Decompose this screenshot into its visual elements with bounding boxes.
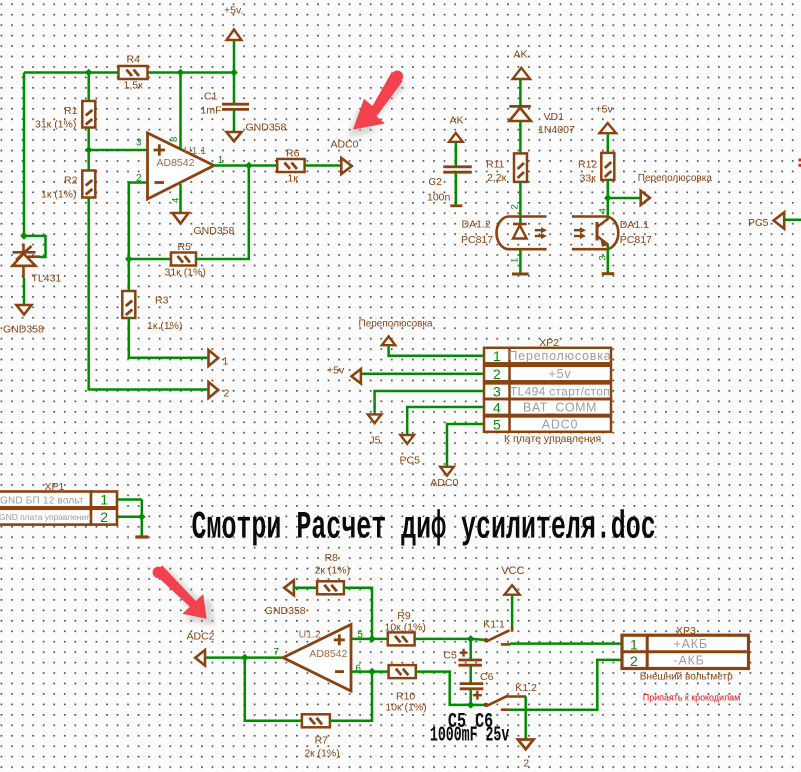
ground arrow (K1.2) [518,740,534,750]
label VD1 [544,111,565,123]
svg-text:+5v.: +5v. [224,5,243,17]
value 31k (1%) [35,119,76,131]
wire XP2 pin5 [447,424,484,467]
junction top rail / +5v C1 [230,69,238,77]
connector XP2 row 5 [484,416,611,432]
svg-text:10к (1%): 10к (1%) [385,701,426,713]
label R1 [64,105,78,117]
wire VD1 to R11 [519,121,522,153]
red specks right edge [799,159,801,167]
wire op-amp V- pin4 [179,184,182,213]
svg-text:1000mF 25v: 1000mF 25v [430,724,510,748]
pin number 3 [136,138,142,149]
value 1,5k [124,80,144,92]
wire rail to R1 [87,73,90,102]
value 10k (1%) R9 [385,622,426,634]
svg-text:DA1.2: DA1.2 [462,219,491,231]
power +5v arrow symbol [227,30,242,41]
net arrow ADC0 down [440,467,454,476]
resistor R2 [82,171,95,198]
wire ADC2 to output node [205,656,245,659]
net label 2 (bottom) [523,758,529,770]
node XP1 junction [138,513,146,521]
value 2,2k [487,172,507,184]
svg-text:GND плата управления: GND плата управления [0,512,91,522]
wire C1 top [233,73,236,104]
svg-text:1: 1 [223,356,229,368]
connector XP2 row 3 [484,383,611,399]
svg-text:3: 3 [598,255,609,260]
net arrow J5 down [368,414,382,423]
power VCC label [501,565,524,577]
wire C6 to node2 [469,689,472,705]
regulator TL431 [13,244,41,279]
wire VCC to K1.1 [511,596,514,629]
svg-text:2: 2 [523,758,529,770]
wire C1 bottom [233,109,236,132]
power +5v arrow (R12) [599,123,616,133]
svg-text:AK: AK [450,115,464,127]
value 10k (1%) R10 [385,701,426,713]
wire C5 to C6 [469,665,472,683]
svg-text:J5: J5 [369,435,380,447]
svg-text:10к (1%): 10к (1%) [385,622,426,634]
junction top rail / op-amp V+ [177,69,185,77]
svg-text:GND358: GND358 [246,122,287,134]
svg-text:3: 3 [136,138,142,149]
resistor R6 [277,159,304,172]
resistor R10 [389,665,416,678]
label R10 [396,690,415,702]
note big text Smotri Raschet [192,505,656,549]
optocoupler DA1.1 transistor half [572,217,618,250]
resistor R11 [514,153,527,182]
power +5v label [224,5,243,17]
svg-text:+5v: +5v [549,367,572,381]
net label J5 [369,435,380,447]
wire output pin1 [214,164,277,167]
label U1.2 [299,628,321,640]
connector XP2 row 1 [484,348,612,364]
wire R11 to opto LED [519,182,522,223]
svg-text:R6: R6 [286,148,300,160]
wire C2 bottom [455,172,458,205]
wire node to R5 [129,258,171,261]
connector XP1 label [45,481,65,493]
node output junction [245,162,253,170]
svg-text:R1: R1 [64,105,78,117]
svg-text:TL494 старт/стоп: TL494 старт/стоп [510,385,610,399]
svg-text:Внешний вольтметр: Внешний вольтметр [640,671,733,682]
svg-text:C6: C6 [480,671,494,683]
svg-text:6: 6 [355,664,361,675]
pin number 4 (rotated, opto transistor) [598,208,609,213]
svg-text:PC5: PC5 [748,217,769,229]
wire R10 to C6 node [416,672,471,705]
pin number 4 (rotated) [171,198,182,203]
wire K1.2 to ground 2 [524,697,527,740]
node K1.1 junction [467,635,475,643]
svg-text:2: 2 [100,509,108,525]
power AK label (C2) [450,115,464,127]
wire opto LED bottom [519,249,522,273]
node R5/R3 junction [125,255,133,263]
capacitor C2 [443,167,472,172]
value 1k R6 [288,173,299,185]
svg-text:1: 1 [100,492,108,508]
wire pin3 to op-amp [89,149,148,152]
wire R5 to output node [196,166,249,260]
net label PC5 (right edge) [748,217,769,229]
value 1k (1%) [41,189,77,201]
svg-text:К плате управления: К плате управления [504,433,601,445]
pin number 2 [136,173,142,184]
label R9 [397,610,411,622]
svg-text:R12: R12 [578,159,597,171]
net label Perepolyusovka (top) [638,173,713,184]
ground GND358 arrow (TL431) [17,305,32,315]
net arrow +5v left [352,369,361,384]
power +5v label (R12) [596,104,614,116]
capacitor C1 [222,104,249,109]
wire K1.2 to XP3 pin2 [510,660,622,710]
node TL431 junction [20,232,28,240]
node pin3 junction [85,146,93,154]
value AD8542 (U1.2) [309,648,347,660]
svg-text:ADC0: ADC0 [430,477,458,489]
label GND358 (R8) [265,605,306,617]
connector XP3 label [676,625,696,637]
value 100n [427,192,451,204]
net arrow PC5 (right edge) [774,212,785,228]
wire pin6 to R10 [351,670,389,673]
svg-text:ADC2: ADC2 [187,631,215,643]
pin number 5 [357,630,363,641]
svg-text:7: 7 [274,647,280,658]
svg-text:1mF: 1mF [201,105,222,117]
wire K1.1 to XP3 pin1 [510,642,622,645]
value PC817 (DA1.2) [461,234,493,246]
value 2k (1%) R8 [315,565,351,577]
node R12/collector junction [604,194,612,202]
svg-text:ADC0: ADC0 [331,139,359,151]
node K1.2 junction [467,701,475,709]
svg-text:5: 5 [493,416,501,432]
wire C5 to node [469,639,472,660]
pin number 1 [218,155,224,166]
optocoupler DA1.2 LED half [496,217,547,250]
wire output to R7 [245,658,302,721]
label R5 [178,241,192,253]
wire R1 to pin3 node [87,128,90,151]
svg-text:GND358: GND358 [194,225,235,237]
node R8/pin5 junction [368,635,376,643]
net label 2 [224,388,230,400]
svg-text:C2: C2 [429,176,443,188]
svg-text:R11: R11 [486,159,505,171]
svg-text:K1.1: K1.1 [483,618,505,630]
label C5 [443,649,457,661]
net label Perepolyusovka (XP2) [359,319,434,330]
svg-text:1: 1 [493,348,501,364]
power AK arrow (VD1) [513,68,531,79]
resistor R3 [122,291,135,318]
svg-text:BAT_COMM: BAT_COMM [523,401,597,415]
svg-text:AD8542: AD8542 [309,648,347,660]
value 31k (1%) R5 [165,267,206,279]
value PC817 (DA1.1) [620,234,652,246]
connector XP2 row 4 [484,399,611,415]
connector XP1 row 1 [0,492,117,508]
label R6 [286,148,300,160]
pin number 3 (rotated, opto transistor) [598,255,609,260]
net arrow 1 [209,350,219,366]
svg-text:1к (1%): 1к (1%) [147,320,183,332]
svg-text:R3: R3 [155,295,169,307]
wire pin5 to R9 [351,638,388,641]
svg-text:Переполюсовка: Переполюсовка [508,349,611,363]
wire XP1 pin1 [117,498,142,501]
svg-text:100n: 100n [427,192,451,204]
wire opto transistor emitter down [607,245,610,273]
capacitor C5 [458,649,482,665]
svg-text:GND358: GND358 [3,324,44,336]
label K1.2 [515,682,537,694]
svg-text:+5v: +5v [327,365,345,377]
value 1N4007 [538,124,575,136]
label C2 [429,176,443,188]
label TL431 [32,273,62,285]
svg-text:Смотри Расчет диф усилителя.do: Смотри Расчет диф усилителя.doc [192,505,656,549]
wire top rail horizontal [24,71,234,74]
svg-text:R7: R7 [315,735,329,747]
svg-text:R9: R9 [397,610,411,622]
wire XP2 pin3 [375,391,484,414]
node U1.2 output junction [241,654,249,662]
net label 1 [223,356,229,368]
resistor R7 [302,714,330,727]
svg-text:2к (1%): 2к (1%) [304,748,340,760]
svg-text:4: 4 [493,399,501,415]
net label ADC0 [331,139,359,151]
wire R3 down to net 1 [129,318,209,358]
wire R12 to collector node [607,180,610,219]
ground bar (XP1) [135,535,148,538]
value 1k (1%) R3 [147,320,183,332]
svg-text:U1.2: U1.2 [299,628,321,640]
pin number 8 (rotated) [169,137,180,142]
svg-text:VCC: VCC [501,565,524,577]
net arrow Perepolyusovka up [382,336,395,345]
diode VD1 1N4007 [509,106,531,121]
op-amp U1.2 [283,625,351,692]
pin number 6 [355,664,361,675]
wire TL431 to gnd [23,278,26,305]
svg-text:PC817: PC817 [620,234,652,246]
label K1.1 [483,618,505,630]
switch K1.1 [471,627,512,645]
net label PC5 (middle) [400,455,421,467]
svg-text:2: 2 [224,388,230,400]
value 33k [580,173,597,185]
svg-text:K1.2: K1.2 [515,682,537,694]
resistor R4 [119,66,148,79]
wire XP1 pin2 [117,516,142,519]
svg-text:2: 2 [493,366,501,382]
svg-text:R4: R4 [127,54,141,66]
value 2k (1%) R7 [304,748,340,760]
svg-text:1к: 1к [288,173,299,185]
net label ADC2 [187,631,215,643]
pin number 2 (rotated, opto LED) [510,204,521,209]
power AK arrow (C2) [449,133,463,142]
power AK label (VD1) [514,49,528,61]
switch K1.2 [471,696,526,710]
svg-text:2,2к: 2,2к [487,172,507,184]
wire node to R2 [87,150,90,171]
svg-text:AD8542: AD8542 [157,157,195,169]
wire op-amp V+ pin8 [179,73,182,151]
wire R3 top [128,259,131,291]
label GND358 (op-amp) [194,225,235,237]
node R7/pin6 junction [368,668,376,676]
ground GND358 arrow (C1) [227,132,242,141]
svg-text:GND358: GND358 [265,605,306,617]
wire left vertical to TL431 [23,73,26,236]
svg-text:1: 1 [510,258,521,263]
svg-text:PC5: PC5 [400,455,421,467]
label R8 [325,552,339,564]
label DA1.1 [620,219,649,231]
label Vneshniy voltmetr [640,671,733,682]
net label +5v (XP2) [327,365,345,377]
svg-text:R2: R2 [64,175,78,187]
pin number 1 (rotated, opto LED) [510,258,521,263]
wire AK to C2 [455,143,458,166]
svg-text:Припаять к крокодилам: Припаять к крокодилам [643,693,740,703]
svg-text:+5v: +5v [596,104,614,116]
wire XP2 pin4 [407,407,484,435]
connector XP3 box [622,635,749,669]
svg-text:ADC0: ADC0 [542,418,579,432]
svg-text:U1.1: U1.1 [184,145,206,157]
net arrow GND358 left (R8) [284,580,294,595]
svg-text:2к (1%): 2к (1%) [315,565,351,577]
svg-text:-АКБ: -АКБ [674,654,705,668]
wire AK to VD1 [519,80,522,105]
svg-text:DA1.1: DA1.1 [620,219,649,231]
wire output to op-amp [245,656,283,659]
label GND358 (TL431) [3,324,44,336]
svg-text:PC817: PC817 [461,234,493,246]
wire R8 to pin5 node [344,588,372,639]
label R7 [315,735,329,747]
svg-text:TL431: TL431 [32,273,62,285]
wire XP2 pin2 [361,372,484,375]
wire TL431 adj loop [24,236,46,257]
svg-text:+АКБ: +АКБ [674,637,708,651]
label R3 [155,295,169,307]
note text 1000mF 25v [430,724,510,748]
net arrow Perepolyusovka (right) [641,191,650,205]
label C6 [480,671,494,683]
svg-text:R8: R8 [325,552,339,564]
wire arrow to R8 [294,587,317,590]
svg-text:1: 1 [630,636,638,652]
net arrow ADC0 [341,158,352,174]
label R4 [127,54,141,66]
label R11 [486,159,505,171]
junction top rail / R1 [85,69,93,77]
pin end bar C2 [450,204,462,207]
annotation red arrow 2 [153,565,215,625]
wire XP2 pin1 [389,346,484,356]
ground GND358 arrow (op-amp) [173,213,189,224]
wire R2 down to net 2 [89,198,209,390]
connector XP2 label [539,337,559,349]
resistor R1 [82,101,95,128]
svg-text:8: 8 [169,137,180,142]
label K plate upravleniya [504,433,601,445]
wire PC5 to edge [784,219,801,222]
wire node to net arrow [608,197,641,200]
pin number 7 [274,647,280,658]
svg-text:1N4007: 1N4007 [538,124,575,136]
svg-text:31к (1%): 31к (1%) [165,267,206,279]
wire +5v to rail [233,41,236,73]
connector XP2 row 2 [484,366,611,382]
pin end bar opto LED [512,273,529,276]
resistor R8 [317,581,344,594]
svg-text:VD1: VD1 [544,111,565,123]
svg-text:1,5к: 1,5к [124,80,144,92]
svg-text:GND БП 12 вольт: GND БП 12 вольт [0,495,84,506]
label R12 [578,159,597,171]
svg-text:2: 2 [510,204,521,209]
power VCC arrow [505,585,520,595]
resistor R12 [601,153,614,180]
svg-text:AK: AK [514,49,528,61]
wire R6 to ADC0 [305,164,341,167]
note red text Pripayat k krokodilam [643,693,740,703]
label R2 [64,175,78,187]
wire +5v to R12 [607,134,610,153]
svg-text:33к: 33к [580,173,597,185]
capacitor C6 [460,684,484,700]
svg-text:R5: R5 [178,241,192,253]
value AD8542 [157,157,195,169]
label U1.1 [184,145,206,157]
svg-text:31к (1%): 31к (1%) [35,119,76,131]
annotation red arrow 1 [348,71,406,138]
pin end bar opto transistor [602,272,615,275]
value 1mF [201,105,222,117]
wire XP1 to ground [141,500,144,537]
op-amp U1.1 [148,133,215,199]
net arrow 2 [209,382,219,398]
wire R7 to pin6 node [330,672,372,721]
label GND358 (C1) [246,122,287,134]
resistor R5 [171,253,196,266]
label C1 [204,91,218,103]
svg-text:C5: C5 [443,649,457,661]
svg-text:1к (1%): 1к (1%) [41,189,77,201]
label DA1.2 [462,219,491,231]
net arrow PC5 down [400,435,414,444]
net label ADC0 (middle) [430,477,458,489]
svg-text:Переполюсовка: Переполюсовка [638,173,713,184]
connector XP1 row 2 [0,509,117,525]
